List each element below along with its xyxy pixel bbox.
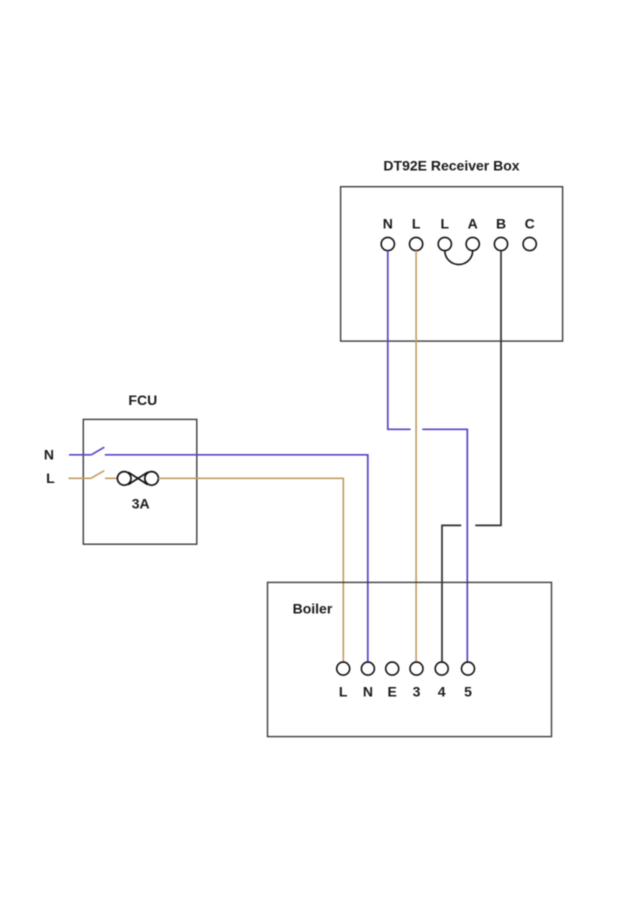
boiler terminal 5 xyxy=(462,662,475,675)
svg-text:C: C xyxy=(525,215,535,231)
boiler terminal 3 xyxy=(410,662,423,675)
switch blade on N line xyxy=(91,447,104,455)
wire FCU N to boiler N (blue) xyxy=(105,455,368,662)
receiver box outline xyxy=(341,187,563,341)
fuse cross link X xyxy=(128,472,148,484)
wire receiver L to boiler 3 (tan) xyxy=(415,251,417,663)
wire FCU N input segment (blue) xyxy=(69,454,91,456)
svg-text:N: N xyxy=(44,447,54,463)
fuse body right circle xyxy=(145,472,159,486)
svg-text:3: 3 xyxy=(413,684,421,700)
terminal C (receiver) xyxy=(523,237,536,250)
svg-text:L: L xyxy=(46,470,55,486)
svg-text:5: 5 xyxy=(464,684,472,700)
jumper link L-A arc xyxy=(445,251,473,265)
svg-text:L: L xyxy=(339,684,348,700)
boiler box outline xyxy=(268,582,552,736)
terminal A (receiver) xyxy=(466,237,479,250)
terminal N (receiver) xyxy=(381,237,394,250)
terminal L pin2 (receiver) xyxy=(410,237,423,250)
svg-text:N: N xyxy=(383,215,393,231)
svg-text:Boiler: Boiler xyxy=(293,600,333,616)
boiler terminal E xyxy=(386,662,399,675)
terminal B (receiver) xyxy=(494,237,507,250)
svg-text:A: A xyxy=(468,215,478,231)
svg-text:FCU: FCU xyxy=(128,392,157,408)
boiler terminal L xyxy=(337,662,350,675)
fuse body left circle xyxy=(117,472,131,486)
svg-text:L: L xyxy=(441,215,450,231)
svg-text:3A: 3A xyxy=(132,496,150,512)
wire switch to fuse (tan) xyxy=(105,477,118,479)
switch blade on L line xyxy=(91,471,104,479)
boiler terminal N xyxy=(361,662,374,675)
svg-text:L: L xyxy=(412,215,421,231)
svg-text:E: E xyxy=(388,684,397,700)
wire FCU L input segment (tan) xyxy=(69,477,92,479)
wire fuse to boiler L (tan) xyxy=(158,478,343,662)
wire receiver B to boiler 4 (black) xyxy=(442,251,501,663)
terminal L pin3 (receiver) xyxy=(438,237,451,250)
svg-text:B: B xyxy=(496,215,506,231)
boiler terminal 4 xyxy=(435,662,448,675)
svg-text:N: N xyxy=(363,684,373,700)
wire receiver N to boiler 5 (blue) xyxy=(388,251,468,663)
svg-text:DT92E Receiver Box: DT92E Receiver Box xyxy=(383,158,519,174)
FCU box outline xyxy=(83,419,197,544)
svg-text:4: 4 xyxy=(438,684,446,700)
